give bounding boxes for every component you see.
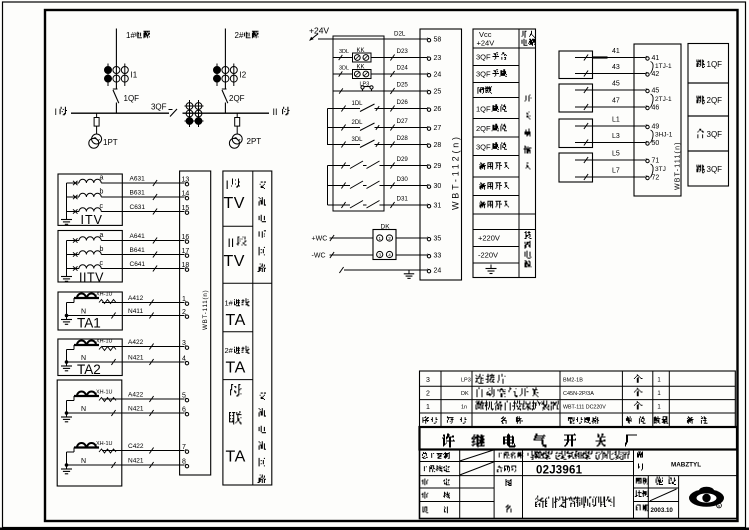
svg-text:TA: TA: [226, 360, 246, 377]
pin 58: [427, 39, 430, 42]
svg-text:1DL: 1DL: [352, 101, 364, 107]
svg-text:A641: A641: [130, 233, 146, 240]
CT box TA2 (feeder 2 current circuit): [58, 339, 122, 376]
pin 49: [646, 125, 649, 128]
spare input contact row to pin 29: [328, 165, 351, 167]
svg-text:3QF: 3QF: [476, 53, 491, 62]
svg-text:A631: A631: [130, 176, 146, 183]
spare input contact row to pin 31: [328, 204, 351, 206]
svg-text:3QF: 3QF: [151, 103, 167, 112]
svg-text:a: a: [100, 232, 104, 239]
wire B631 to pin 14: [122, 196, 184, 198]
spare input contact row to pin 30: [328, 185, 351, 187]
svg-text:WBT-112(n): WBT-112(n): [451, 134, 461, 210]
bus II (section II busbar): [183, 112, 270, 114]
svg-text:DK: DK: [461, 391, 469, 397]
svg-text:A422: A422: [128, 339, 144, 346]
wire A422 to pin 5: [102, 398, 185, 400]
bus tie breaker 3QF: [169, 109, 173, 111]
wire L3 to pin 50: [575, 142, 646, 144]
svg-text:29: 29: [434, 163, 442, 170]
device box WBT-112 binary inputs: [420, 29, 462, 280]
wire DK to pin 35: [396, 237, 427, 239]
svg-text:-220V: -220V: [478, 251, 498, 260]
svg-text:D30: D30: [397, 176, 409, 183]
legend vertical text AC voltage circuit: [260, 182, 266, 189]
svg-text:b: b: [100, 246, 104, 253]
pin 71: [646, 159, 649, 162]
svg-text:2QF: 2QF: [229, 94, 245, 103]
wire N411 to pin 2: [67, 315, 185, 317]
left feed rail for DL contact rows: [327, 109, 329, 146]
svg-text:XH-1U: XH-1U: [96, 339, 113, 345]
svg-text:LP3: LP3: [360, 82, 370, 88]
svg-text:6: 6: [182, 406, 186, 413]
svg-text:3HJ-1: 3HJ-1: [655, 132, 673, 139]
KK switch contact row to pin 24: [333, 73, 353, 75]
svg-text:XH-1U: XH-1U: [96, 292, 113, 298]
PT winding box IITV: [58, 231, 122, 283]
link LP3 contact row to pin 25: [333, 90, 427, 92]
svg-text:L1: L1: [612, 117, 620, 124]
svg-text:+24V: +24V: [309, 26, 329, 36]
svg-text:N: N: [81, 309, 86, 316]
svg-text:3TJ: 3TJ: [655, 166, 666, 173]
wire C631 to pin 15: [122, 211, 184, 213]
row designed (she ji): [422, 507, 428, 514]
binary input legend table: [473, 29, 536, 278]
wire A422 to pin 3: [102, 346, 185, 348]
svg-text:3QF: 3QF: [476, 143, 491, 152]
svg-text:MABZTYL: MABZTYL: [671, 462, 701, 469]
svg-text:1QF: 1QF: [124, 94, 140, 103]
label contract number: [497, 466, 503, 473]
svg-text:IITV: IITV: [79, 271, 104, 285]
svg-text:13: 13: [182, 176, 190, 183]
row reviewed (shen he): [422, 492, 429, 499]
svg-text:41: 41: [612, 48, 620, 55]
legend vertical text AC current circuit: [260, 393, 266, 400]
bus I (section I busbar): [71, 112, 169, 114]
svg-text:L7: L7: [612, 168, 620, 175]
pin 23: [427, 57, 430, 60]
breaker aux contact 2DL row to pin 27: [328, 127, 361, 129]
svg-text:30: 30: [434, 183, 442, 190]
svg-text:2PT: 2PT: [247, 137, 262, 146]
wire L7 to pin 72: [575, 176, 646, 178]
row spare input 3: [479, 201, 486, 209]
svg-text:14: 14: [182, 190, 190, 197]
bus-tie CT 1: [74, 395, 99, 397]
pin 24: [427, 270, 430, 273]
voltage transformer 2PT with fuse: [236, 113, 238, 117]
ground (device case): [408, 270, 410, 274]
IITV phase c winding: [67, 268, 80, 270]
svg-text:25: 25: [434, 89, 442, 96]
col label device power vertical: [525, 231, 532, 239]
output relay label 2TJ-1: [651, 94, 654, 108]
pin 18: [185, 268, 188, 271]
output relay label 3TJ: [651, 164, 654, 178]
svg-text:2: 2: [426, 391, 430, 398]
svg-text:+220V: +220V: [478, 234, 500, 243]
svg-text:TA2: TA2: [77, 362, 101, 377]
pin 50: [646, 142, 649, 145]
pin 45: [646, 89, 649, 92]
title block lower table: [420, 450, 738, 519]
col label input power: [522, 31, 527, 38]
svg-text:45: 45: [612, 81, 620, 88]
KK switch contact row to pin 23: [333, 57, 353, 59]
breaker 2QF: [222, 88, 227, 90]
svg-text:46: 46: [652, 105, 660, 112]
svg-text:D24: D24: [397, 65, 409, 72]
svg-text:N421: N421: [128, 355, 144, 362]
wire DK to pin 33: [396, 254, 427, 256]
pin 31: [427, 205, 430, 208]
svg-text:24: 24: [434, 268, 442, 275]
pin 28: [427, 144, 430, 147]
row project check signature: [424, 466, 427, 471]
svg-text:N: N: [81, 406, 86, 413]
label scale: [635, 490, 642, 497]
pin 17: [185, 254, 188, 257]
IITV phase a winding: [67, 240, 80, 242]
wire N421 to pin 6: [67, 412, 185, 414]
svg-text:3DL: 3DL: [339, 66, 349, 72]
pin 72: [646, 176, 649, 179]
svg-text:L5: L5: [612, 151, 620, 158]
pin 15: [185, 211, 188, 214]
svg-text:2: 2: [182, 309, 186, 316]
svg-text:D31: D31: [397, 196, 409, 203]
svg-text:II: II: [228, 236, 235, 250]
svg-text:L3: L3: [612, 133, 620, 140]
breaker DK (automatic air switch): [373, 230, 396, 260]
incoming feeder 2 wire: [224, 29, 226, 90]
pin 25: [427, 91, 430, 94]
wire A412 to pin 1: [102, 302, 185, 304]
case ground wire to pin 24: [344, 269, 427, 271]
svg-text:50: 50: [652, 140, 660, 147]
svg-text:+WC: +WC: [312, 236, 328, 243]
CT box bus-tie (mu-lian TA current circuit): [57, 380, 122, 486]
svg-text:+24V: +24V: [477, 39, 495, 48]
legend table circuits: [223, 171, 272, 485]
CT box TA1 (feeder 1 current circuit): [58, 292, 122, 330]
svg-text:BM2-1B: BM2-1B: [563, 378, 583, 384]
svg-text:28: 28: [434, 142, 442, 149]
svg-text:3: 3: [182, 340, 186, 347]
row spare input 1: [479, 162, 486, 170]
svg-text:3QF: 3QF: [707, 165, 723, 174]
wire D2L +24V to pin 58: [318, 38, 427, 40]
breaker 1QF: [113, 88, 118, 90]
svg-text:D23: D23: [397, 48, 409, 55]
pin 33: [427, 255, 430, 258]
svg-text:XH-1U: XH-1U: [96, 441, 113, 447]
output action box 跳1QF: [688, 44, 729, 84]
svg-text:B631: B631: [130, 190, 146, 197]
svg-text:1: 1: [426, 404, 430, 411]
svg-text:4: 4: [182, 355, 186, 362]
pin 7: [185, 450, 188, 453]
label date: [636, 505, 641, 511]
svg-text:2QF: 2QF: [476, 124, 491, 133]
svg-text:3QF: 3QF: [476, 70, 491, 79]
svg-text:I: I: [226, 178, 229, 192]
svg-text:3QF: 3QF: [707, 130, 723, 139]
label drawing number: [637, 452, 643, 458]
IITV rail and ground: [66, 241, 68, 277]
TA2 rail N and ground: [66, 350, 68, 363]
pin 3: [185, 346, 188, 349]
svg-text:KK: KK: [357, 65, 365, 71]
wire 47 to pin 46: [575, 106, 646, 108]
wire 43 to pin 42: [575, 73, 646, 75]
pin 2: [185, 315, 188, 318]
svg-text:3DL: 3DL: [339, 49, 349, 55]
svg-text:2TJ-1: 2TJ-1: [655, 96, 672, 103]
svg-text:45: 45: [652, 88, 660, 95]
svg-text:16: 16: [182, 234, 190, 241]
svg-text:2QF: 2QF: [707, 96, 723, 105]
svg-text:D28: D28: [397, 135, 409, 142]
pin 6: [185, 413, 188, 416]
TA2 current transformer LH: [74, 344, 99, 346]
drawing type value shi she: [656, 477, 663, 486]
svg-text:1#: 1#: [126, 31, 135, 40]
XJ logo: [689, 489, 724, 507]
svg-text:1PT: 1PT: [103, 138, 118, 147]
output action box 跳2QF: [688, 83, 729, 116]
svg-text:WBT-111(n): WBT-111(n): [675, 141, 682, 190]
pin 14: [185, 197, 188, 200]
pin 5: [185, 399, 188, 402]
svg-text:43: 43: [612, 64, 620, 71]
incoming feeder 1 wire: [115, 29, 117, 90]
svg-text:1n: 1n: [461, 405, 467, 411]
svg-text:49: 49: [652, 124, 660, 131]
pin 30: [427, 185, 430, 188]
breaker aux contact 3DL row to pin 28: [328, 144, 361, 146]
pin 16: [185, 240, 188, 243]
svg-text:18: 18: [182, 262, 190, 269]
svg-text:D26: D26: [397, 99, 409, 106]
TA1 rail N and ground: [66, 303, 68, 316]
svg-text:2#: 2#: [235, 31, 244, 40]
svg-text:5: 5: [182, 392, 186, 399]
svg-text:I1: I1: [131, 71, 138, 80]
label drawing name vertical: [506, 479, 512, 486]
CT I2 (feeder 2 current transformers): [216, 64, 218, 87]
wire N421 to pin 8: [67, 464, 185, 466]
pin 24: [427, 74, 430, 77]
svg-text:A412: A412: [128, 295, 144, 302]
svg-text:8: 8: [182, 458, 186, 465]
svg-text:N411: N411: [128, 308, 143, 315]
device box WBT-111 outputs: [634, 44, 681, 196]
output contact box 2: [559, 84, 593, 112]
svg-text:3: 3: [426, 377, 430, 384]
contact group enclosure box: [333, 36, 384, 211]
svg-text:-WC: -WC: [312, 253, 326, 260]
pin 27: [427, 127, 430, 130]
pin 29: [427, 165, 430, 168]
label drawing type: [636, 478, 642, 484]
pin 26: [427, 108, 430, 111]
ITV phase c winding: [67, 211, 80, 213]
svg-text:02J3961: 02J3961: [536, 465, 583, 477]
svg-text:D2L: D2L: [394, 31, 406, 38]
pin 41: [646, 57, 649, 60]
svg-text:2#: 2#: [225, 346, 234, 355]
svg-text:I2: I2: [240, 71, 247, 80]
output relay label 1TJ-1: [651, 62, 654, 74]
label project name: [499, 453, 502, 458]
svg-text:B641: B641: [130, 247, 146, 254]
svg-text:II: II: [273, 107, 278, 117]
svg-text:TA: TA: [226, 449, 246, 466]
svg-text:D25: D25: [397, 82, 409, 89]
svg-text:7: 7: [182, 444, 186, 451]
wire A641 to pin 16: [122, 240, 184, 242]
wire 45 to pin 45: [575, 89, 646, 91]
svg-text:b: b: [100, 189, 104, 196]
svg-text:1TJ-1: 1TJ-1: [655, 63, 672, 70]
svg-text:C641: C641: [130, 261, 146, 268]
svg-text:47: 47: [612, 98, 620, 105]
row ground symbol: [490, 265, 492, 269]
voltage transformer 1PT with fuse: [96, 113, 98, 117]
svg-text:KK: KK: [357, 48, 365, 54]
svg-text:C45N-2P/3A: C45N-2P/3A: [563, 391, 594, 397]
svg-text:31: 31: [434, 203, 442, 210]
pin 46: [646, 106, 649, 109]
svg-text:ITV: ITV: [81, 213, 103, 227]
row chief engineer signature: [422, 452, 428, 459]
svg-text:N421: N421: [128, 458, 144, 465]
svg-text:3DL: 3DL: [352, 137, 364, 143]
svg-text:41: 41: [652, 55, 660, 62]
svg-text:N: N: [81, 458, 86, 465]
pin 13: [185, 183, 188, 186]
wire 41 to pin 41: [575, 57, 646, 59]
ITV phase a winding: [67, 182, 80, 184]
svg-text:1QF: 1QF: [707, 60, 723, 69]
svg-text:15: 15: [182, 205, 190, 212]
svg-text:72: 72: [652, 175, 660, 182]
svg-text:26: 26: [434, 106, 442, 113]
svg-text:71: 71: [652, 158, 660, 165]
bus-tie CT2 rail and ground: [66, 452, 68, 465]
output action box 跳3QF: [688, 151, 729, 186]
svg-text:TA1: TA1: [77, 316, 101, 331]
CT I1 (feeder 1 current transformers): [107, 64, 109, 87]
pin 4: [185, 362, 188, 365]
CT of bus tie 3QF: [189, 100, 191, 127]
wire N421 to pin 4: [67, 361, 185, 363]
breaker aux contact 1DL row to pin 26: [328, 108, 361, 110]
company name row XJ Electric Switch Factory: [420, 427, 738, 450]
bus-tie CT1 rail and ground: [66, 401, 68, 414]
project name value: [528, 451, 534, 460]
drawing name value: [535, 496, 544, 509]
svg-text:c: c: [100, 260, 104, 267]
svg-text:a: a: [100, 175, 104, 182]
row spare input 2: [479, 182, 486, 190]
svg-text:WBT-111(n): WBT-111(n): [202, 290, 209, 330]
legend cell bus-tie TA: [230, 384, 241, 396]
svg-text:2003.10: 2003.10: [651, 507, 674, 514]
svg-text:WBT-111 DC220V: WBT-111 DC220V: [563, 405, 606, 411]
svg-text:c: c: [100, 203, 104, 210]
material table header row: [422, 416, 429, 424]
ITV phase b winding: [67, 196, 80, 198]
bus-tie CT 2: [74, 446, 99, 448]
col label switching quantity input vertical: [525, 95, 532, 102]
svg-text:D27: D27: [397, 118, 409, 125]
svg-text:TV: TV: [224, 253, 245, 270]
wire L5 to pin 71: [575, 159, 646, 161]
svg-text:R: R: [718, 503, 721, 508]
svg-text:D29: D29: [397, 156, 409, 163]
row approved (shen ding): [422, 479, 429, 486]
svg-text:I: I: [55, 107, 58, 117]
pin 1: [185, 302, 188, 305]
svg-text:58: 58: [434, 37, 442, 44]
material list table: [420, 371, 736, 427]
pin 8: [185, 465, 188, 468]
ITV rail and ground: [66, 183, 68, 219]
svg-text:N: N: [81, 355, 86, 362]
svg-text:A422: A422: [128, 392, 144, 399]
svg-text:33: 33: [434, 253, 442, 260]
PT winding box ITV: [58, 174, 122, 225]
wire L1 to pin 49: [575, 125, 646, 127]
svg-text:XH-1U: XH-1U: [96, 390, 113, 396]
scale diagonal: [650, 489, 677, 501]
pin 42: [646, 73, 649, 76]
svg-text:C631: C631: [130, 204, 146, 211]
svg-text:2DL: 2DL: [352, 120, 364, 126]
output action box 合3QF: [688, 116, 729, 151]
svg-text:42: 42: [652, 71, 660, 78]
svg-text:24: 24: [434, 72, 442, 79]
output relay label 3HJ-1: [651, 130, 654, 143]
svg-text:17: 17: [182, 248, 190, 255]
svg-text:TV: TV: [224, 195, 245, 212]
wire C641 to pin 18: [122, 268, 184, 270]
output contact box 4: [559, 153, 593, 182]
IITV phase b winding: [67, 254, 80, 256]
output contact box 3: [559, 119, 593, 148]
wire B641 to pin 17: [122, 254, 184, 256]
wire A631 to pin 13: [122, 182, 184, 184]
pin 35: [427, 238, 430, 241]
row blocking (bi-suo): [477, 87, 484, 94]
TA1 current transformer LH: [74, 297, 99, 299]
svg-text:35: 35: [434, 236, 442, 243]
wire C422 to pin 7: [102, 450, 185, 452]
svg-text:1QF: 1QF: [476, 105, 491, 114]
svg-text:DK: DK: [381, 224, 391, 231]
output contact box 1: [559, 51, 593, 79]
left feed rail for spare contact rows: [327, 166, 329, 206]
svg-text:LP3: LP3: [461, 378, 471, 384]
svg-text:C422: C422: [128, 443, 144, 450]
svg-text:23: 23: [434, 55, 442, 62]
